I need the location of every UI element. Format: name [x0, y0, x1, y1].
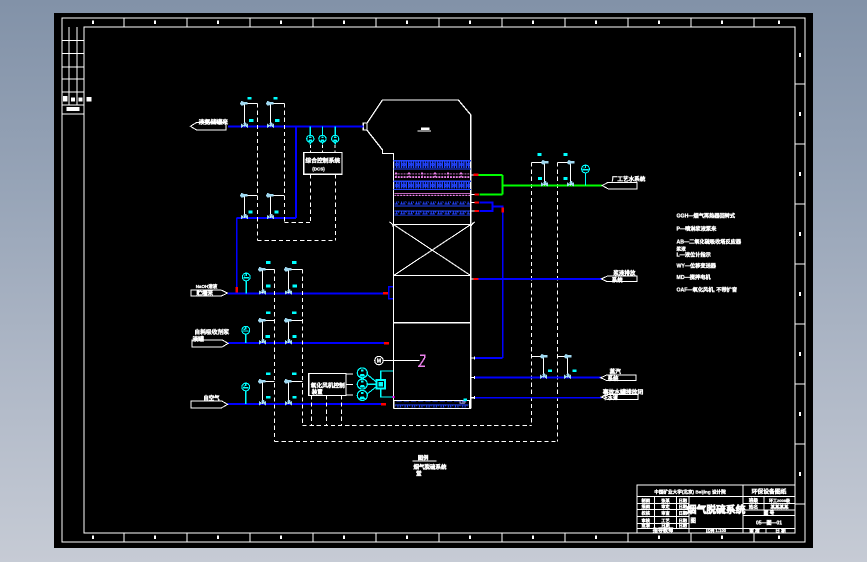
valve assembly V7 on line B	[258, 318, 274, 345]
valve assembly V9 on line C	[258, 379, 274, 406]
svg-text:比例 1:100: 比例 1:100	[706, 527, 727, 534]
top margin strip dividers	[124, 18, 754, 27]
svg-text:校核: 校核	[642, 510, 651, 517]
packing X section	[390, 222, 475, 276]
green pipe: riser	[501, 175, 503, 195]
stream pill: emergency drain tank	[601, 395, 638, 400]
flow arrow	[475, 193, 480, 195]
right margin strip dividers	[795, 84, 805, 504]
svg-text:描图: 描图	[642, 503, 650, 510]
valve assembly V6 on line A	[284, 267, 302, 295]
signal line: V2 drain dashed	[284, 104, 286, 223]
title block left grid small labels	[642, 497, 687, 529]
svg-text:批准: 批准	[642, 522, 651, 529]
nozzle stub demister flush 1	[471, 174, 474, 176]
instrument FI on line A	[245, 281, 247, 293]
svg-text:环工2008级: 环工2008级	[769, 497, 791, 503]
valve assembly V4 on transfer header	[266, 193, 284, 220]
svg-text:图: 图	[691, 517, 697, 525]
signal line: bottom run y=425.8	[303, 425, 532, 427]
svg-text:系统: 系统	[612, 276, 624, 284]
signal line: horizontal link y=240.3	[258, 240, 336, 242]
blue pipe: spray U-link	[480, 202, 503, 358]
tower bottom	[394, 408, 471, 410]
slurry tank level line	[394, 322, 471, 324]
svg-text:综合控制系统: 综合控制系统	[305, 156, 340, 164]
signal line: right riser x=531.6	[531, 163, 533, 426]
cyan tags V1/V2	[247, 97, 251, 100]
svg-text:日期: 日期	[679, 522, 687, 529]
revision table (top-left margin)	[62, 27, 84, 114]
stream pill: air supply	[191, 401, 228, 408]
dosing pump P3	[334, 127, 336, 136]
dosing pump P2	[321, 127, 323, 136]
svg-text:MD—搅拌电机: MD—搅拌电机	[677, 273, 712, 281]
svg-text:液氨储罐来: 液氨储罐来	[199, 118, 229, 126]
demister layer 1 (chevron packing)	[394, 160, 471, 162]
svg-text:厂工艺水系统: 厂工艺水系统	[612, 175, 646, 183]
stream pill: process water system	[602, 182, 637, 189]
stream pill: liquid ammonia source	[190, 123, 225, 130]
oxidation fan control box	[309, 374, 346, 396]
valve assembly V14 on steam line	[558, 354, 572, 379]
svg-text:日 期: 日 期	[775, 527, 786, 534]
signal line: DCS right output	[335, 174, 337, 240]
valve assembly V1 on ammonia line	[240, 101, 257, 128]
DCS control box	[304, 153, 342, 175]
svg-text:氧化风机控制: 氧化风机控制	[311, 381, 345, 389]
pipe: branch down from ammonia line	[295, 127, 297, 218]
instrument on water main	[585, 173, 587, 185]
cyan tags V11/V12	[538, 153, 542, 156]
svg-text:NaOH溶液: NaOH溶液	[196, 283, 218, 290]
nozzle stub spray bank 3	[471, 201, 475, 203]
svg-text:AB—二氧化硫吸收塔反应器: AB—二氧化硫吸收塔反应器	[677, 238, 742, 246]
valve assembly V13 on steam line	[532, 354, 548, 379]
pipe: transfer header horizontal	[237, 217, 296, 219]
svg-text:OAF—氧化风机, 不带扩音: OAF—氧化风机, 不带扩音	[677, 285, 738, 293]
pipe: air feed line C	[228, 403, 386, 405]
svg-text:审查: 审查	[661, 510, 670, 517]
valve assembly V12 on water main	[558, 160, 575, 187]
svg-text:GGH—烟气再热器回转式: GGH—烟气再热器回转式	[677, 211, 736, 219]
svg-text:中国矿业大学(北京) Beijing 设计院: 中国矿业大学(北京) Beijing 设计院	[654, 488, 726, 495]
svg-text:某某某某: 某某某某	[770, 503, 789, 510]
svg-text:浆液: 浆液	[677, 245, 687, 252]
nozzle stub slurry bleed	[471, 278, 474, 280]
svg-text:制图: 制图	[642, 497, 650, 504]
svg-text:液罐: 液罐	[193, 335, 205, 343]
agitator motor M	[375, 356, 383, 364]
svg-text:日期: 日期	[679, 497, 687, 504]
valve assembly V2 on ammonia line	[266, 101, 284, 128]
air manifold header	[376, 379, 386, 389]
aeration grid box	[394, 400, 470, 408]
level tag tick (cyan)	[464, 398, 467, 400]
flow arrow (vertical, into NaOH line)	[236, 287, 238, 292]
green pipe: flush 2	[480, 193, 503, 195]
blue pipe: recirculation return	[475, 357, 503, 359]
cyan tags V7/V8	[266, 311, 270, 314]
svg-text:贮槽来: 贮槽来	[196, 289, 214, 297]
flow arrow	[475, 201, 480, 203]
svg-text:图 号: 图 号	[764, 510, 775, 517]
inner border frame	[84, 27, 795, 533]
signal stubs pumps to DCS box	[309, 145, 311, 152]
caption underline	[412, 460, 436, 462]
top margin grid reference labels	[92, 21, 780, 25]
agitator impeller (magenta)	[418, 355, 425, 366]
svg-text:指导教师: 指导教师	[653, 527, 673, 534]
flow arrow	[474, 278, 479, 280]
flow arrow line A	[383, 292, 389, 295]
pipe: NaOH feed line A	[228, 292, 384, 294]
svg-text:下水道: 下水道	[603, 395, 619, 402]
spray header 2 (pink nozzles)	[395, 193, 471, 196]
signal line: bottom run y=441.7	[275, 441, 558, 443]
fan discharge connectors	[367, 375, 375, 394]
valve assembly V11 on water main	[532, 160, 549, 187]
nozzle stub demister flush 2	[471, 193, 475, 195]
svg-text:L—液位计指示: L—液位计指示	[677, 250, 711, 258]
aeration grid sparger pattern	[395, 401, 469, 407]
air pipe to tower upper nozzle	[381, 371, 393, 379]
svg-text:环保设备图纸: 环保设备图纸	[752, 488, 787, 496]
signal line: V1 drain dashed	[257, 104, 259, 241]
signal line: horizontal link y=222.8	[285, 222, 311, 224]
pipe: drop to NaOH line	[236, 218, 238, 293]
spray bank 3 (blue hooks)	[395, 201, 471, 206]
nozzle stub recirculation	[470, 357, 475, 359]
oxidation fan OAF2	[357, 379, 367, 389]
spray header 1 (pink nozzles)	[395, 174, 471, 178]
nozzle stub emergency drain	[470, 397, 475, 399]
svg-text:浆液排放: 浆液排放	[612, 269, 636, 277]
green pipe: flush 1	[478, 174, 502, 176]
blue pipe: emergency drain	[475, 397, 601, 399]
nozzle stub spray bank 4	[471, 210, 475, 212]
stream pill: slurry discharge	[601, 276, 637, 282]
valve assembly V3 on transfer header	[240, 193, 257, 220]
cyan tags V3/V4	[248, 211, 252, 214]
bottom margin strip dividers	[124, 533, 754, 542]
cyan tags V13/V14	[548, 369, 552, 372]
valve assembly V8 on line B	[284, 318, 302, 345]
flow arrow (riser)	[502, 207, 504, 212]
svg-text:堂: 堂	[416, 470, 422, 478]
nozzle stub steam line	[470, 377, 475, 379]
valve assembly V10 on line C	[284, 379, 302, 406]
svg-text:班级: 班级	[749, 497, 759, 504]
instrument FI on line B	[245, 334, 247, 343]
oxidation fan OAF1	[357, 368, 367, 378]
flow arrow	[475, 210, 480, 212]
pipe: absorbent slurry feed line B	[228, 342, 388, 344]
revision table tiny signature marks	[63, 96, 92, 111]
signal line: DCS left output	[310, 174, 312, 222]
flow arrow	[474, 174, 479, 176]
svg-text:装置: 装置	[311, 388, 323, 396]
spray bank 4 (blue hooks)	[395, 210, 471, 215]
right margin grid reference labels	[799, 53, 801, 476]
absorber tower AB shell	[367, 100, 471, 409]
oxidation fan OAF3	[357, 390, 367, 400]
signal lines: fan control box drains	[311, 395, 313, 425]
dosing pump P1	[309, 127, 311, 136]
svg-text:烟气脱硫系统: 烟气脱硫系统	[687, 503, 746, 516]
svg-text:姓名: 姓名	[748, 503, 758, 510]
flow arrow line B	[384, 342, 389, 345]
tower internal tag (top)	[421, 127, 430, 130]
svg-text:P—喷淋浆液泵来: P—喷淋浆液泵来	[677, 225, 718, 233]
demister layer 2 (chevron packing)	[394, 180, 471, 182]
title block	[637, 485, 795, 533]
signal line: right riser x=557.5	[557, 163, 559, 442]
svg-text:(DCS): (DCS)	[312, 166, 325, 171]
agitator shaft	[383, 360, 419, 362]
tower inlet distribution bracket (line A)	[389, 287, 394, 299]
svg-text:烟气脱硫系统: 烟气脱硫系统	[414, 463, 448, 471]
signal line: left drain chain x=302.5	[302, 270, 304, 426]
instrument FI on line C	[245, 391, 247, 404]
svg-text:自空气: 自空气	[203, 394, 220, 402]
bottom margin grid reference labels	[92, 536, 780, 540]
green pipe: process water main	[502, 184, 602, 186]
svg-text:张某: 张某	[661, 497, 670, 504]
stream pill: NaOH solution	[191, 290, 228, 296]
magenta junction dot	[392, 396, 394, 398]
signal line: left drain chain x=275	[274, 270, 276, 442]
air pipe to tower lower nozzle	[381, 389, 393, 397]
blue pipe: steam line	[475, 377, 601, 379]
valve assembly V5 on line A	[258, 267, 274, 295]
svg-text:自耗吸收剂浆: 自耗吸收剂浆	[194, 328, 229, 336]
svg-text:审 核: 审 核	[749, 527, 760, 534]
pipe: ammonia feed line (top)	[228, 126, 363, 128]
svg-text:05—图—01: 05—图—01	[756, 519, 782, 526]
svg-text:WY—位移变送器: WY—位移变送器	[677, 262, 717, 270]
stubs fan box to fans	[346, 373, 353, 375]
stream pill: absorbent slurry tank	[192, 340, 228, 347]
gas inlet nozzle	[363, 123, 367, 130]
svg-text:蒸汽: 蒸汽	[610, 368, 622, 376]
svg-text:系统: 系统	[608, 374, 619, 382]
legend notes text block	[677, 211, 742, 293]
cyan tags V9/V10	[266, 372, 270, 375]
cyan tags V5/V6	[266, 261, 270, 264]
outer border frame	[62, 18, 805, 542]
svg-text:审定: 审定	[661, 503, 670, 510]
stream pill: steam system	[601, 375, 636, 381]
blue pipe: slurry bleed to pill	[478, 278, 601, 280]
svg-text:M: M	[377, 359, 381, 365]
flow arrow line C	[381, 403, 386, 406]
